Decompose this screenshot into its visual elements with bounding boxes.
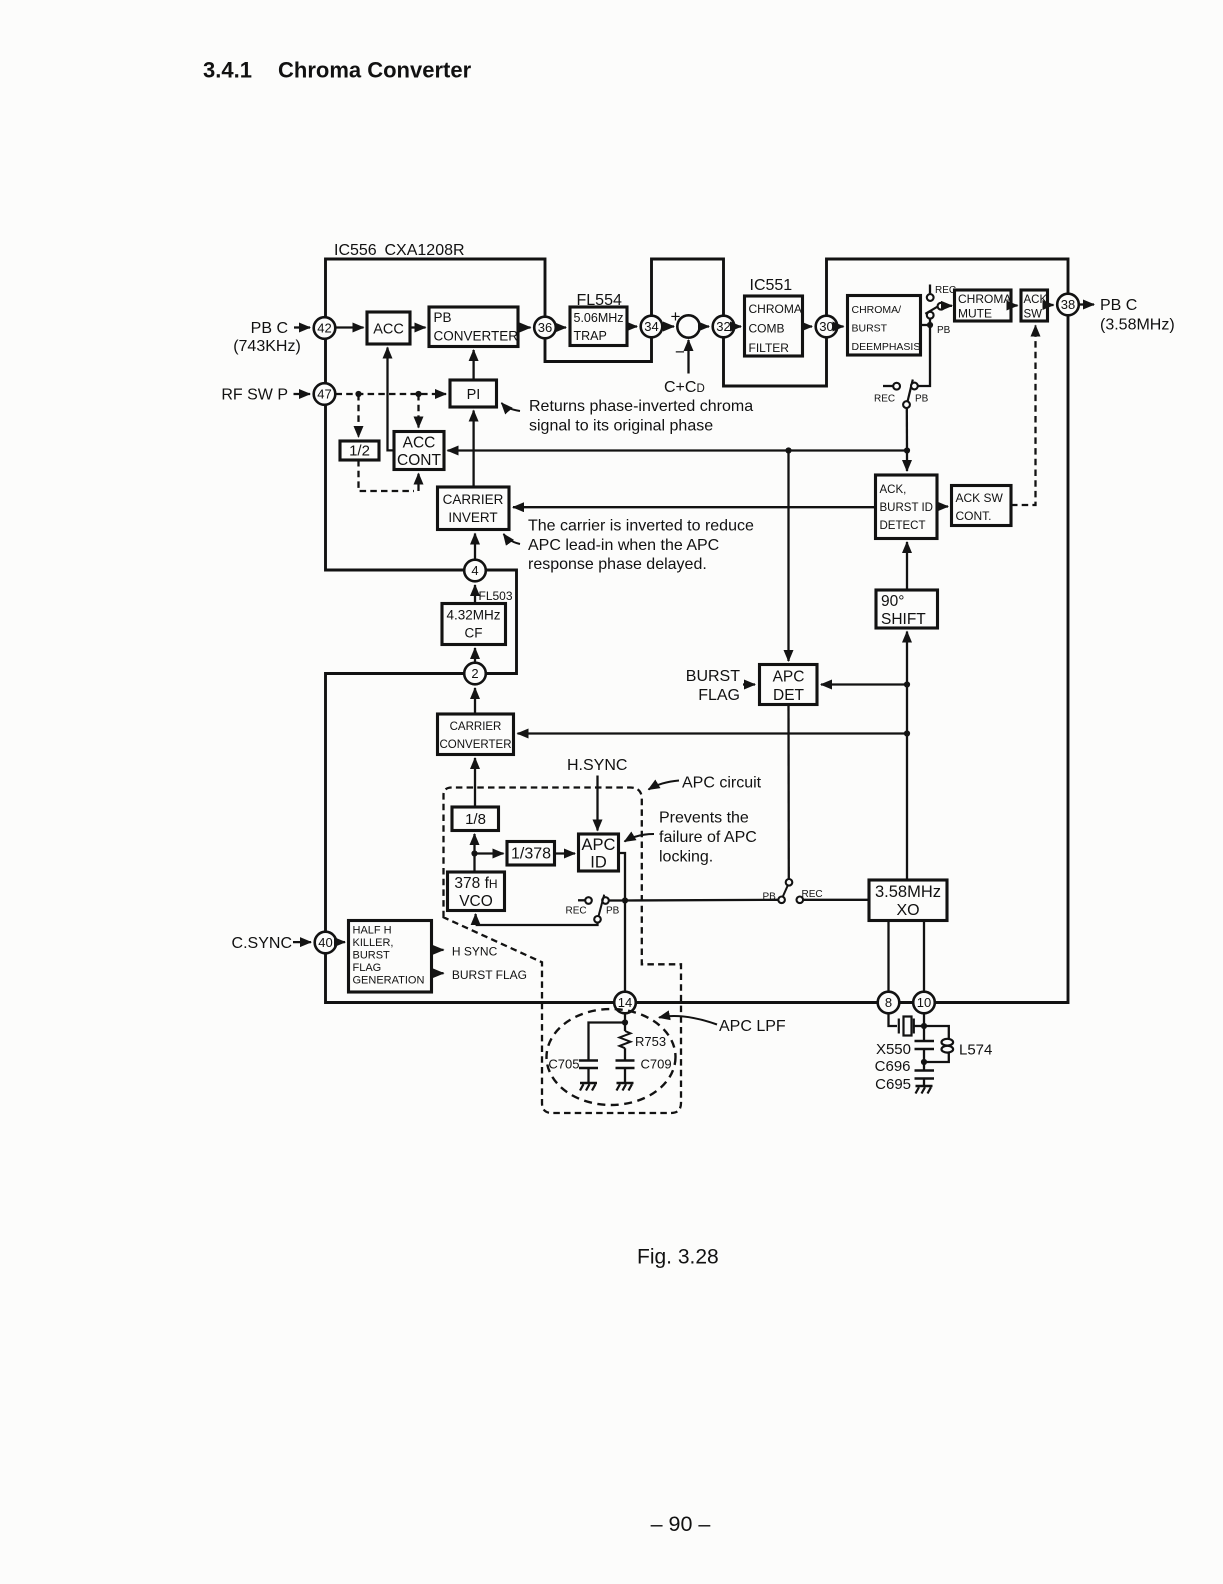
svg-text:CONT.: CONT. [956, 509, 992, 523]
svg-text:APC: APC [582, 836, 616, 854]
wire pin 38 output arrow [1079, 303, 1094, 305]
wire dashed down to 1/2 [357, 394, 359, 437]
svg-text:APC LPF: APC LPF [719, 1018, 786, 1035]
svg-text:IC551: IC551 [750, 277, 793, 294]
svg-text:H.SYNC: H.SYNC [567, 757, 627, 774]
svg-text:32: 32 [716, 319, 730, 334]
wire PB C input arrow [294, 326, 310, 328]
svg-text:C+CD: C+CD [664, 379, 705, 396]
wire 32 to chroma comb filter [735, 325, 742, 327]
wire BURST FLAG to APC DET [743, 683, 755, 685]
wire pin 4 to CARRIER INVERT [474, 534, 476, 560]
svg-text:C.SYNC: C.SYNC [232, 935, 292, 952]
svg-text:BURST: BURST [353, 950, 391, 962]
wire 1/378 to APC ID [555, 852, 576, 854]
pin 40 [315, 932, 337, 954]
svg-text:Fig. 3.28: Fig. 3.28 [637, 1246, 719, 1269]
wire APC DET down to REC/PB switch [787, 705, 790, 879]
wire summing junction to pin 32 [700, 325, 709, 327]
wire BURST FLAG output [432, 972, 444, 974]
svg-text:IC556: IC556 [334, 242, 377, 259]
junction LPF node [622, 1019, 628, 1025]
block CARRIER INVERT [438, 487, 510, 530]
svg-text:10: 10 [917, 995, 931, 1010]
wire dashed ACK SW CONT to ACK SW [1011, 326, 1036, 506]
svg-text:response phase delayed.: response phase delayed. [528, 556, 707, 573]
svg-text:1/2: 1/2 [349, 443, 370, 460]
switch REC/PB feedback select [874, 325, 930, 408]
block APC DET [760, 665, 818, 705]
wire H.SYNC into APC ID [596, 776, 598, 831]
junction APC ID output node [622, 897, 628, 903]
wire pin 8 to crystal [889, 1014, 898, 1027]
ground under C705 [580, 1083, 597, 1091]
svg-text:L574: L574 [959, 1042, 992, 1059]
switch REC/PB APC reference select [763, 879, 823, 903]
wire switch down to feedback node [906, 408, 909, 451]
svg-text:C709: C709 [641, 1057, 672, 1072]
svg-text:PB C: PB C [1100, 297, 1137, 314]
block 1/378 [507, 842, 555, 866]
block APC ID [579, 834, 619, 872]
wire switch to chroma mute [945, 305, 952, 307]
block chroma mute [955, 290, 1012, 321]
wire dashed 47 to PI [336, 393, 447, 395]
svg-text:GENERATION: GENERATION [353, 975, 425, 987]
filter FL554 5.06MHz trap [570, 307, 627, 346]
svg-text:4: 4 [471, 563, 478, 578]
svg-text:HALF H: HALF H [353, 925, 392, 937]
node PB C output label [1100, 297, 1175, 334]
svg-text:locking.: locking. [659, 849, 713, 866]
junction on dashed wire branch to 1/2 [355, 391, 361, 397]
svg-text:ACK SW: ACK SW [956, 491, 1004, 505]
block ACK SW CONT [952, 486, 1012, 526]
svg-text:KILLER,: KILLER, [353, 937, 394, 949]
wire 42 to ACC [336, 326, 364, 328]
svg-text:Prevents the: Prevents the [659, 810, 749, 827]
svg-text:REC: REC [802, 889, 823, 900]
svg-text:(3.58MHz): (3.58MHz) [1100, 317, 1175, 334]
junction VCO output branch [471, 850, 477, 856]
wire switch to VCO input [476, 923, 598, 925]
svg-text:PB: PB [606, 906, 620, 917]
block 378fH VCO [448, 872, 505, 911]
svg-text:1/8: 1/8 [465, 811, 486, 828]
wire XO to pin 8 [887, 921, 889, 992]
wire dashed 1/2 bottom to ACC CONT bottom [359, 460, 415, 491]
svg-text:30: 30 [819, 319, 833, 334]
svg-text:34: 34 [644, 319, 658, 334]
pin 14 [614, 992, 636, 1014]
annotation returns phase-inverted [529, 398, 753, 435]
svg-text:COMB: COMB [749, 322, 785, 336]
pin 8 [878, 992, 900, 1014]
block 1/2 [340, 441, 379, 460]
block ACC CONT [394, 432, 444, 470]
pointer arrow to CARRIER INVERT [504, 534, 521, 544]
wire feedback node down into ACK detect [906, 451, 908, 472]
svg-text:The carrier is inverted to red: The carrier is inverted to reduce [528, 518, 754, 535]
svg-text:14: 14 [618, 995, 632, 1010]
svg-text:PB: PB [434, 310, 452, 325]
junction feedback node [904, 447, 910, 453]
wire H SYNC output [432, 949, 444, 951]
wire LPF node to C705 [589, 1023, 626, 1060]
ground under C709 [617, 1083, 634, 1091]
IC556 boundary outline with pin notches [326, 259, 1069, 1003]
svg-text:CHROMA/: CHROMA/ [852, 304, 902, 316]
dashed ellipse APC LPF group [547, 1009, 676, 1105]
pin 47 [314, 383, 336, 405]
svg-text:CXA1208R: CXA1208R [385, 242, 465, 259]
wire FL503 to pin 4 [474, 585, 476, 604]
block 90 SHIFT [876, 590, 938, 628]
wire arrow up into VCO [474, 914, 476, 925]
svg-text:ID: ID [590, 854, 607, 872]
wire PI to PB CONVERTER [472, 350, 474, 380]
wire node to PB contact [625, 899, 778, 902]
pin 10 [913, 992, 935, 1014]
wire 34 to summing junction [663, 325, 675, 327]
svg-text:FILTER: FILTER [749, 341, 790, 355]
svg-text:CONVERTER: CONVERTER [440, 739, 512, 751]
capacitor C695 [915, 1062, 935, 1086]
annotation prevents APC failure [659, 810, 757, 866]
svg-text:BURST: BURST [852, 323, 888, 335]
svg-text:DET: DET [773, 687, 805, 704]
svg-text:TRAP: TRAP [574, 329, 607, 343]
wire ACC CONT output up into ACC [388, 348, 395, 451]
svg-text:APC circuit: APC circuit [682, 775, 762, 792]
svg-text:378 fH: 378 fH [454, 875, 497, 892]
block HALF H KILLER BURST FLAG GENERATION [349, 921, 432, 993]
annotation carrier inverted [528, 518, 754, 574]
svg-text:APC: APC [773, 669, 805, 686]
junction crystal node [921, 1023, 927, 1029]
svg-text:PI: PI [467, 387, 481, 403]
wire 40 to half H killer [337, 941, 346, 943]
block CARRIER CONVERTER [438, 714, 514, 755]
block IC551 chroma comb filter [745, 296, 803, 356]
wire C+CD into summing junction [687, 340, 689, 374]
svg-text:CF: CF [465, 626, 483, 641]
svg-text:CHROMA: CHROMA [749, 302, 802, 316]
wire feedback to ACC CONT [448, 449, 908, 451]
svg-text:CARRIER: CARRIER [450, 721, 502, 733]
svg-text:(743KHz): (743KHz) [233, 338, 301, 355]
wire 1/8 to CARRIER CONVERTER [474, 758, 476, 807]
wire PB CONVERTER to pin 36 [518, 326, 531, 328]
svg-text:+: + [671, 307, 681, 326]
wire 36 to FL554 trap [556, 326, 566, 328]
wire deemphasis output to switch node [921, 324, 931, 326]
svg-text:REC: REC [566, 906, 587, 917]
junction branch to carrier converter [904, 730, 910, 736]
pin 34 [641, 316, 663, 338]
block 1/8 [452, 807, 499, 831]
wire pin 10 down [923, 1014, 925, 1041]
svg-text:PB: PB [937, 325, 951, 336]
svg-text:Returns phase-inverted chroma: Returns phase-inverted chroma [529, 398, 753, 415]
wire pin 2 to FL503 [474, 648, 476, 662]
svg-text:BURST: BURST [686, 668, 740, 685]
pin 4 [464, 560, 486, 582]
svg-text:CHROMA: CHROMA [958, 292, 1011, 306]
svg-text:BURST FLAG: BURST FLAG [452, 968, 527, 982]
svg-text:DEEMPHASIS: DEEMPHASIS [852, 341, 921, 353]
svg-text:DETECT: DETECT [880, 520, 926, 532]
pointer arrow to APC ID [625, 834, 655, 842]
svg-text:BURST ID: BURST ID [880, 502, 933, 514]
svg-text:3.58MHz: 3.58MHz [875, 883, 941, 901]
pin 2 [464, 663, 486, 685]
wire XO to pin 10 [923, 921, 925, 992]
wire chain to CARRIER CONVERTER [518, 732, 908, 734]
svg-text:FLAG: FLAG [353, 962, 382, 974]
wire ACK burst ID detect to CARRIER INVERT [513, 506, 875, 508]
block PB CONVERTER [429, 307, 518, 347]
block ACK BURST ID DETECT [876, 475, 938, 539]
svg-text:VCO: VCO [459, 893, 493, 910]
junction C696 L574 node [921, 1059, 927, 1065]
svg-text:CONVERTER: CONVERTER [434, 329, 519, 344]
wire CARRIER INVERT to PI [472, 411, 474, 487]
junction feedback to APC DET branch [785, 447, 791, 453]
wire REC contact to 3.58MHz XO [803, 899, 869, 901]
svg-text:3.4.1: 3.4.1 [203, 58, 252, 83]
svg-text:RF SW P: RF SW P [221, 387, 288, 404]
capacitor C696 [915, 1041, 935, 1062]
svg-text:FL503: FL503 [479, 589, 513, 603]
svg-text:C705: C705 [548, 1057, 579, 1072]
pointer arrow to APC LPF ellipse [659, 1016, 717, 1024]
svg-text:ACC: ACC [403, 435, 436, 452]
block PI [450, 380, 497, 407]
ground under C695 [916, 1086, 933, 1094]
pin 30 [816, 316, 838, 338]
wire 90 shift to ACK detect [906, 542, 908, 590]
svg-text:APC lead-in when the APC: APC lead-in when the APC [528, 537, 719, 554]
svg-text:signal to its original phase: signal to its original phase [529, 418, 713, 435]
block 3.58MHz XO [869, 880, 947, 921]
pointer arrow to PI [502, 403, 521, 411]
junction on dashed wire branch to ACC CONT [415, 391, 421, 397]
wire FL554 to pin 34 [627, 325, 637, 327]
svg-text:X550: X550 [876, 1041, 911, 1058]
wire ACK detect to ACK SW CONT [937, 505, 948, 507]
pin 32 [713, 316, 735, 338]
svg-text:−: − [675, 343, 685, 362]
svg-text:42: 42 [317, 321, 331, 336]
wire dashed down to ACC CONT [417, 394, 419, 428]
wire node to pin 14 [624, 901, 626, 992]
svg-text:40: 40 [318, 935, 332, 950]
wire VCO to 1/8 [473, 834, 475, 872]
pointer arrow to APC circuit boundary [649, 781, 680, 790]
svg-text:38: 38 [1061, 297, 1075, 312]
dashed APC circuit boundary [444, 788, 682, 1114]
svg-text:H SYNC: H SYNC [452, 945, 498, 959]
svg-text:XO: XO [896, 902, 919, 919]
svg-text:47: 47 [317, 387, 331, 402]
capacitor C709 [616, 1061, 635, 1083]
junction deemphasis output node [927, 322, 933, 328]
wire branch to 1/378 [475, 852, 504, 854]
svg-text:C696: C696 [875, 1058, 911, 1075]
junction branch to APC DET [904, 681, 910, 687]
wire 30 to deemphasis [838, 325, 844, 327]
pin 42 [314, 317, 336, 339]
svg-text:SHIFT: SHIFT [881, 611, 926, 628]
svg-text:FLAG: FLAG [698, 687, 740, 704]
svg-text:– 90 –: – 90 – [651, 1512, 711, 1536]
wire chain to APC DET right [821, 683, 907, 685]
wire feedback branch down into APC DET [787, 451, 789, 662]
pin 38 [1057, 294, 1079, 316]
svg-text:5.06MHz: 5.06MHz [574, 311, 624, 325]
svg-text:C695: C695 [875, 1076, 911, 1093]
svg-text:ACK: ACK [1024, 294, 1048, 306]
wire RF SW P arrow [294, 393, 311, 395]
wire ACC to PB CONVERTER [410, 326, 426, 328]
svg-text:36: 36 [538, 320, 552, 335]
inductor L574 [924, 1026, 953, 1062]
svg-text:4.32MHz: 4.32MHz [446, 608, 500, 623]
wire ACK SW to pin 38 [1048, 304, 1054, 306]
svg-text:90°: 90° [881, 593, 904, 610]
svg-text:failure of APC: failure of APC [659, 829, 757, 846]
svg-text:CARRIER: CARRIER [443, 492, 504, 507]
crystal X550 [899, 1017, 924, 1036]
summing junction [671, 307, 700, 362]
svg-text:PB: PB [915, 394, 929, 405]
svg-text:1/378: 1/378 [511, 846, 551, 863]
wire chroma mute to ACK SW [1011, 304, 1018, 306]
switch REC/PB chroma mute select [925, 285, 956, 336]
svg-text:REC: REC [874, 394, 895, 405]
pin 36 [534, 317, 556, 339]
svg-text:PB C: PB C [251, 320, 288, 337]
wire XO chain up to 90 shift [906, 632, 908, 881]
node BURST FLAG label [686, 668, 740, 704]
filter FL503 4.32MHz CF [442, 604, 506, 645]
wire APC ID output to node [619, 853, 626, 901]
svg-text:8: 8 [885, 995, 892, 1010]
svg-text:Chroma Converter: Chroma Converter [278, 58, 472, 83]
svg-text:ACC: ACC [373, 322, 404, 338]
wire pin 14 down to LPF node [624, 1014, 626, 1023]
svg-text:2: 2 [471, 666, 478, 681]
block chroma/burst deemphasis [848, 296, 921, 356]
svg-text:R753: R753 [635, 1034, 666, 1049]
node PB C input label [233, 320, 301, 355]
svg-text:ACK,: ACK, [880, 484, 907, 496]
svg-text:CONT: CONT [397, 452, 441, 469]
block ACK SW [1021, 290, 1048, 321]
capacitor C705 [579, 1061, 598, 1083]
switch REC/PB VCO control select [566, 895, 623, 923]
wire C.SYNC arrow [293, 941, 311, 943]
wire dashed arrow up into ACC CONT bottom [417, 474, 419, 492]
resistor R753 [620, 1023, 631, 1060]
block ACC [367, 312, 410, 344]
svg-text:INVERT: INVERT [448, 510, 497, 525]
svg-text:SW: SW [1024, 309, 1043, 321]
svg-text:MUTE: MUTE [958, 307, 992, 321]
wire CARRIER CONVERTER to pin 2 [474, 688, 476, 714]
wire comb filter to pin 30 [803, 325, 813, 327]
